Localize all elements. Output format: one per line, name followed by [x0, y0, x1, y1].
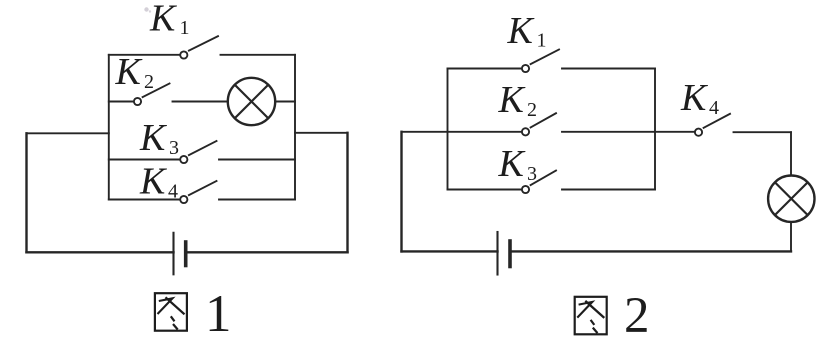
svg-text:1: 1 — [205, 285, 232, 343]
label K4 (图2) — [680, 77, 719, 119]
wire: right vertical above lamp (图2) — [790, 132, 792, 175]
wire: K3 branch left segment (图2) — [448, 189, 522, 191]
wire: battery to bottom right (图2) — [512, 250, 791, 252]
wire: K4 branch left segment (图1) — [109, 199, 180, 201]
switch K1 (图2) — [522, 50, 559, 73]
wire: lamp to box right (图1) — [275, 101, 295, 103]
svg-text:4: 4 — [709, 97, 719, 119]
switch K1 (图1) — [180, 36, 218, 58]
wire: K4 to right corner (图2) — [734, 131, 792, 133]
wire: box left vertical (图1) — [108, 55, 110, 200]
wire: right vertical below lamp (图2) — [790, 222, 792, 251]
svg-text:1: 1 — [180, 17, 190, 39]
svg-text:K: K — [498, 79, 526, 121]
wire: K2 branch left segment (图1) — [109, 101, 133, 103]
svg-text:2: 2 — [527, 99, 537, 121]
wire: box right vertical (图2) — [654, 69, 656, 190]
wire: box left vertical (图2) — [447, 69, 449, 190]
wire: K1 branch left segment (图1) — [109, 54, 180, 56]
svg-text:2: 2 — [144, 71, 154, 93]
wire: outer right vertical (图1) — [346, 133, 348, 253]
wire: K3 branch right segment (图1) — [219, 159, 295, 161]
svg-text:4: 4 — [168, 181, 178, 203]
label 图1 caption — [155, 293, 187, 331]
svg-text:K: K — [498, 143, 526, 185]
wire: battery to bottom right (图1) — [188, 251, 348, 253]
wire: bottom left to battery (图1) — [27, 251, 174, 253]
wire: outer left vertical (图1) — [25, 133, 27, 252]
switch K4 (图1) — [180, 181, 216, 203]
wire: main branch left (图2) — [402, 131, 522, 133]
scan speck near K1 (图1) — [144, 7, 151, 12]
svg-text:K: K — [139, 161, 167, 203]
label K1 (图2) — [507, 10, 547, 52]
wire: bottom left to battery (图2) — [402, 250, 498, 252]
svg-text:K: K — [149, 0, 177, 40]
svg-text:2: 2 — [624, 288, 650, 344]
svg-text:K: K — [115, 51, 143, 93]
label K4 (图1) — [139, 161, 178, 203]
wire: K1 branch right segment (图1) — [221, 54, 296, 56]
wire: K2 switch to lamp (图1) — [173, 101, 228, 103]
wire: K1 branch right segment (图2) — [562, 68, 655, 70]
wire: K2 to box right (图2) — [562, 131, 655, 133]
svg-text:1: 1 — [537, 30, 547, 52]
switch K2 (图1) — [134, 84, 170, 106]
battery GB1 (图1) — [174, 233, 186, 274]
wire: outer left vertical (图2) — [400, 132, 402, 252]
switch K2 (图2) — [522, 113, 556, 135]
wire: box right vertical (图1) — [294, 55, 296, 200]
lamp EL1 (图1) — [228, 78, 275, 125]
switch K3 (图1) — [180, 141, 216, 163]
wire: K3 branch left segment (图1) — [109, 159, 180, 161]
switch K3 (图2) — [522, 171, 556, 194]
label K3 (图2) — [498, 143, 538, 185]
label K2 (图2) — [498, 79, 538, 121]
battery GB2 (图2) — [498, 232, 511, 275]
switch K4 (图2) — [695, 114, 730, 136]
wire: outer left horizontal (图1) — [27, 132, 109, 134]
wire: K1 branch left segment (图2) — [448, 68, 522, 70]
svg-text:K: K — [680, 77, 708, 119]
label K1 (图1) — [149, 0, 190, 40]
wire: box right to K4 (图2) — [655, 131, 694, 133]
wire: K3 branch right segment (图2) — [562, 189, 655, 191]
wire: K4 branch right segment (图1) — [219, 199, 295, 201]
wire: outer right horizontal (图1) — [295, 132, 348, 134]
svg-text:3: 3 — [527, 163, 537, 185]
svg-text:K: K — [507, 10, 535, 52]
svg-text:3: 3 — [169, 137, 179, 159]
label 图2 caption — [575, 297, 607, 335]
lamp EL2 (图2) — [768, 176, 814, 222]
svg-text:K: K — [139, 117, 167, 159]
label K2 (图1) — [115, 51, 155, 93]
label K3 (图1) — [139, 117, 179, 159]
